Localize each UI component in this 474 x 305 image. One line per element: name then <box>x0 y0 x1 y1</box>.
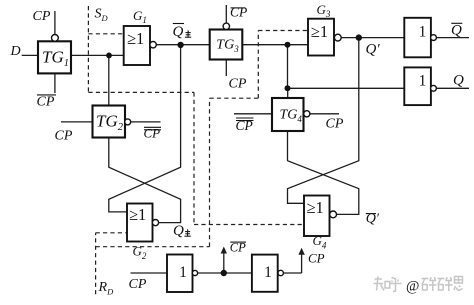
svg-text:@: @ <box>406 279 419 295</box>
svg-text:≥1: ≥1 <box>307 198 324 217</box>
svg-text:1: 1 <box>179 264 187 281</box>
svg-text:1: 1 <box>264 264 272 281</box>
svg-text:CP: CP <box>230 5 247 20</box>
svg-text:D: D <box>10 44 21 59</box>
svg-text:CP: CP <box>55 129 73 144</box>
svg-text:CP: CP <box>129 277 147 292</box>
svg-text:Q: Q <box>453 73 464 89</box>
svg-text:≥1: ≥1 <box>311 22 328 41</box>
svg-text:1: 1 <box>419 24 427 41</box>
svg-text:CP: CP <box>230 241 246 255</box>
svg-text:Q: Q <box>173 223 184 239</box>
svg-text:CP: CP <box>33 9 51 24</box>
svg-text:CP: CP <box>229 77 247 92</box>
svg-text:1: 1 <box>419 73 427 90</box>
svg-text:Q: Q <box>451 22 462 38</box>
svg-text:CP: CP <box>308 250 325 265</box>
svg-text:Q′: Q′ <box>366 42 381 58</box>
svg-text:Q: Q <box>173 24 184 40</box>
svg-text:≥1: ≥1 <box>127 29 144 48</box>
svg-text:CP: CP <box>37 95 55 110</box>
svg-text:≥1: ≥1 <box>129 205 146 224</box>
svg-text:CP: CP <box>326 117 344 132</box>
